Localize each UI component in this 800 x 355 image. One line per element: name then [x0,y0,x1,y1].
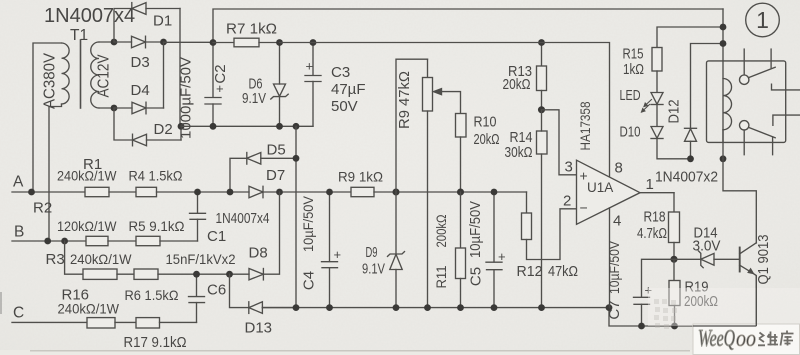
node [720,40,727,47]
resistor R1 [85,187,109,196]
node [491,304,498,311]
svg-text:R10: R10 [474,114,497,131]
svg-text:R2: R2 [33,200,52,217]
svg-text:4.7kΩ: 4.7kΩ [637,225,667,242]
node: R18/D14/R19/C7 [670,256,677,263]
svg-text:+: + [334,247,342,262]
wire [109,191,136,193]
svg-text:D2: D2 [154,121,173,138]
node [424,304,431,311]
svg-text:C1: C1 [207,228,226,245]
capacitor C1 [190,192,206,241]
node: bridge minus [178,123,185,130]
svg-text:9.1V: 9.1V [242,90,266,107]
svg-text:4: 4 [613,213,621,230]
resistor R5 [136,236,160,245]
svg-text:+: + [306,59,314,74]
svg-text:R5 9.1kΩ: R5 9.1kΩ [129,218,185,234]
svg-text:1: 1 [646,176,654,193]
svg-text:47µF: 47µF [331,81,366,98]
svg-text:A: A [13,174,24,191]
diode D10 [651,127,691,159]
resistor R10 [456,114,467,138]
wire bridge plus row [164,41,214,43]
resistor R14 [537,110,548,308]
potentiometer R9 47k [396,59,461,307]
node [538,304,545,311]
svg-text:C: C [13,305,24,322]
watermark box WeeQoo weiku [693,276,800,355]
svg-text:T1: T1 [70,27,88,44]
capacitor C2 [205,43,221,127]
svg-text:R9 1kΩ: R9 1kΩ [338,169,383,185]
capacitor C6 [189,274,205,322]
left edge artifact [0,292,2,314]
svg-text:C3: C3 [331,64,350,81]
wire B to R3 row [65,241,83,274]
transformer T1 [33,40,114,241]
svg-text:R9 47kΩ: R9 47kΩ [397,71,413,129]
svg-text:2: 2 [563,193,571,210]
svg-text:D8: D8 [249,245,268,262]
svg-text:120kΩ/1W: 120kΩ/1W [57,218,117,234]
node: secondary top [111,39,118,46]
svg-text:R18: R18 [644,209,666,226]
svg-text:U1A: U1A [587,180,613,195]
node: D3 cathode junction [160,39,167,46]
watermark pixel blobs [654,299,677,329]
diode D12 [685,44,724,159]
svg-text:LED: LED [620,87,641,104]
svg-text:R11: R11 [434,266,449,289]
svg-text:50V: 50V [331,98,358,115]
ground bus wire [295,126,297,307]
svg-text:D1: D1 [153,13,172,30]
svg-text:D4: D4 [131,82,150,99]
node [671,323,678,330]
node [720,155,727,162]
watermark glyph ku [781,331,794,346]
svg-text:9.1V: 9.1V [362,262,385,278]
node [638,323,645,330]
node [687,155,694,162]
capacitor C3 [305,43,321,127]
watermark glyph wei [758,332,778,346]
svg-text:1N4007x2: 1N4007x2 [655,170,718,186]
relay contact 1 [740,49,800,90]
svg-text:Q1 9013: Q1 9013 [755,235,772,285]
watermark haze [648,288,800,326]
node: B to R3 branch [61,238,68,245]
svg-text:8: 8 [615,160,623,177]
terminal C [12,321,87,323]
svg-text:20kΩ: 20kΩ [474,131,500,148]
node: D7 cathode [276,189,283,196]
svg-text:C6: C6 [207,282,226,299]
resistor R13 [537,43,547,110]
svg-text:15nF/1kVx2: 15nF/1kVx2 [166,251,236,267]
node [457,188,464,195]
resistor R18 [669,193,680,260]
svg-text:R4 1.5kΩ: R4 1.5kΩ [129,168,183,184]
wire [117,273,134,275]
resistor R3 [83,269,117,279]
svg-text:C7: C7 [606,300,623,319]
svg-text:10µF/50V: 10µF/50V [301,196,316,252]
wire C row to C6 [160,321,197,323]
zener D6 [271,43,288,127]
svg-text:R17 9.1kΩ: R17 9.1kΩ [124,335,187,351]
zener D9 [388,192,405,308]
capacitor C7 [634,259,675,326]
transistor Q1 [740,243,757,326]
svg-text:R7 1kΩ: R7 1kΩ [226,22,277,38]
capacitor C4 [322,192,338,308]
wire pin3 net [542,110,577,175]
resistor R17 [136,318,160,328]
svg-text:D9: D9 [366,244,378,261]
relay box [707,61,786,142]
node [293,304,300,311]
resistor R15 [652,27,723,92]
node: D8/D13 junction [226,271,233,278]
svg-text:1N4007x4: 1N4007x4 [44,5,135,27]
ground rail of supply [181,125,313,127]
svg-text:D13: D13 [245,320,273,337]
node: supply gnd to bus [293,123,300,130]
op-amp U1A [577,160,675,307]
svg-text:1N4007x4: 1N4007x4 [216,211,270,227]
diode D8 [249,192,280,280]
svg-text:AC380V: AC380V [42,53,59,109]
resistor R19 [669,259,680,326]
svg-text:B: B [14,224,24,241]
terminal A [12,191,85,193]
svg-text:+: + [498,249,506,264]
node: R9/pot/D9 [392,188,399,195]
svg-text:240kΩ/1W: 240kΩ/1W [57,168,117,184]
svg-text:R3: R3 [46,251,65,268]
diode D3 [114,36,164,48]
wire A row [157,191,250,193]
wire R10 bottom [460,137,462,192]
svg-text:47kΩ: 47kΩ [548,263,578,280]
zener D14 [674,251,740,268]
svg-text:1000µF/50V: 1000µF/50V [178,57,195,139]
svg-text:R12: R12 [517,263,543,280]
resistor R16 [87,318,115,328]
svg-text:240kΩ/1W: 240kΩ/1W [58,301,120,317]
node [326,304,333,311]
svg-text:WeeQ: WeeQ [698,326,735,352]
relay coil [723,61,732,159]
resistor R9 1k [351,187,374,196]
svg-text:R6 1.5kΩ: R6 1.5kΩ [125,287,179,303]
LED D10 (upper) [651,93,663,127]
top rail [213,9,723,43]
svg-text:HA17358: HA17358 [577,101,593,150]
diode D2 [114,108,181,146]
node: B / primary bottom [44,238,51,245]
svg-text:D12: D12 [666,100,683,124]
diode D1 [114,3,180,127]
node [720,24,727,31]
node [457,304,464,311]
svg-text:oo: oo [736,326,756,352]
svg-text:R15: R15 [623,46,644,63]
svg-text:10µF/50V: 10µF/50V [607,241,622,294]
wire flyback row [723,159,756,243]
wire [108,240,136,242]
riser to relay [722,9,724,61]
svg-text:1kΩ: 1kΩ [623,61,644,78]
svg-text:D5: D5 [267,142,286,159]
svg-text:−: − [580,200,588,216]
node [393,304,400,311]
svg-text:20kΩ: 20kΩ [503,76,531,93]
node: R13/R14 divider [538,106,545,113]
wire [374,191,527,193]
svg-text:3: 3 [565,159,573,176]
resistor R11 [456,192,466,308]
svg-text:30kΩ: 30kΩ [505,144,533,161]
+9V rail [280,43,610,178]
svg-text:1: 1 [756,7,769,33]
wire B row to C1 [160,240,198,242]
svg-text:D7: D7 [266,167,285,184]
circled 1 [746,3,780,37]
resistor R4 [136,187,157,196]
bottom rail [262,308,756,326]
svg-text:10µF/50V: 10µF/50V [468,201,484,258]
svg-text:AC12V: AC12V [96,54,113,97]
diode D4 [114,42,164,114]
svg-text:D10: D10 [620,124,641,141]
svg-text:3.0V: 3.0V [693,238,721,255]
svg-text:D3: D3 [131,54,150,71]
svg-text:240kΩ/1W: 240kΩ/1W [70,251,132,267]
diode D7 [249,186,351,197]
diode D5 [230,153,296,193]
diode D13 [230,274,297,313]
capacitor C5 [486,192,502,308]
svg-text:C4: C4 [301,271,318,290]
resistor R2 [86,236,108,245]
relay contact 2 [740,115,800,155]
resistor R12 [522,192,577,260]
wire R3 row [158,273,249,275]
svg-text:+: + [216,81,224,96]
resistor R6 [134,269,158,279]
terminal B [12,240,86,242]
node: secondary bottom [111,105,118,112]
node [606,304,613,311]
node: A / primary top [28,189,35,196]
LED arrows [642,100,652,113]
svg-text:C5: C5 [468,267,485,286]
resistor R7 [213,38,280,47]
svg-text:200kΩ: 200kΩ [434,215,449,248]
wire [115,321,136,323]
